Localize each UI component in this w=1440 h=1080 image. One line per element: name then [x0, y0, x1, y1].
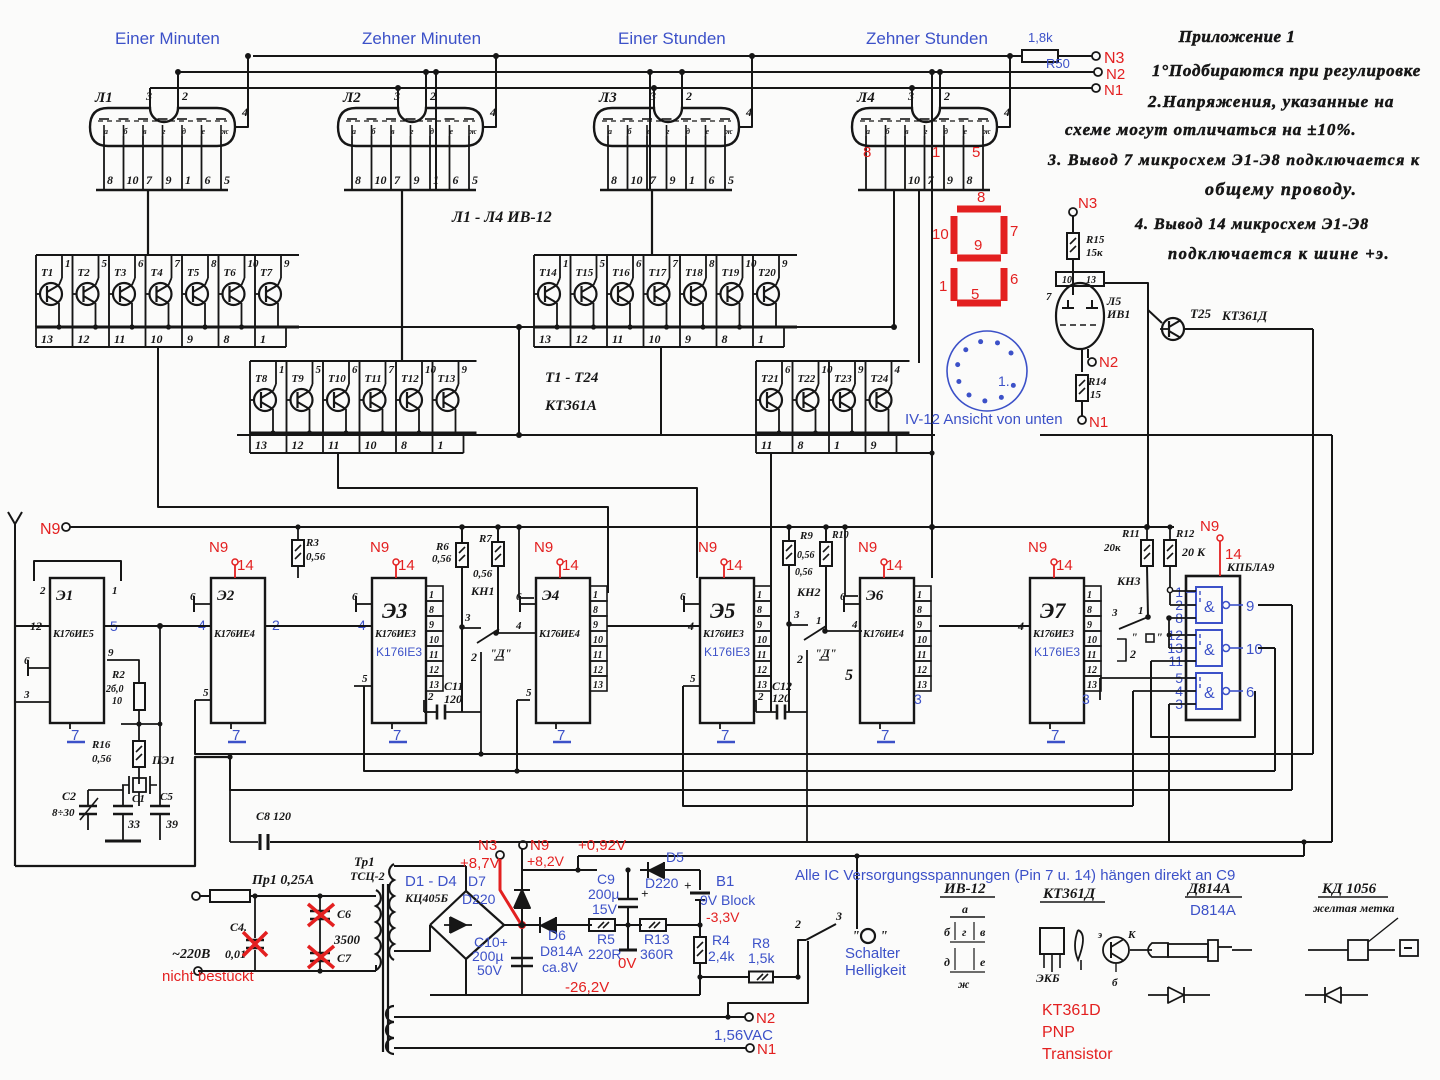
svg-text:R6: R6 — [435, 541, 449, 553]
terminal N2 top — [1094, 68, 1102, 76]
diode D5 D220 — [640, 869, 700, 871]
transistor Т10 — [327, 389, 349, 411]
svg-text:13: 13 — [255, 438, 267, 452]
svg-text:13: 13 — [1087, 680, 1097, 691]
svg-text:14: 14 — [398, 557, 415, 574]
wire rail E4pin5 down — [517, 699, 530, 701]
transistor group frame — [534, 254, 797, 256]
wire E4 ladder out to E5 pin4 — [607, 625, 700, 627]
red cross C6 — [308, 904, 334, 926]
IC Э6 К176ИЕ4 — [860, 578, 914, 723]
IC Э7 right pin ladder — [1084, 586, 1101, 601]
svg-text:Т25: Т25 — [1190, 306, 1211, 321]
svg-text:10: 10 — [932, 226, 949, 243]
svg-text:N9: N9 — [534, 539, 553, 556]
svg-text:1: 1 — [834, 438, 840, 452]
IC Э4 right pin ladder — [590, 586, 607, 601]
resistor R4 2,4k — [699, 925, 701, 938]
svg-text:а: а — [352, 127, 356, 136]
svg-text:3: 3 — [914, 691, 922, 707]
tube IV1 small — [1056, 272, 1104, 286]
svg-text:4: 4 — [489, 105, 496, 119]
svg-text:Т22: Т22 — [798, 373, 816, 385]
wire E2 pin2 to E3 — [265, 625, 372, 627]
svg-text:КН2: КН2 — [796, 585, 820, 599]
svg-text:3: 3 — [1111, 607, 1118, 619]
wire L4 feed down — [893, 190, 895, 327]
svg-text:С11: С11 — [444, 679, 463, 693]
svg-text:14: 14 — [237, 557, 254, 574]
svg-text:Пр1 0,25А: Пр1 0,25А — [251, 873, 314, 888]
wire C8 junction — [227, 754, 232, 759]
svg-text:10: 10 — [248, 258, 260, 270]
svg-text:Т21: Т21 — [761, 373, 779, 385]
resistor R12 20 K — [1169, 527, 1171, 540]
svg-text:11: 11 — [593, 650, 602, 661]
svg-text:Т16: Т16 — [612, 267, 630, 279]
tube Л3 pin 4 wire — [739, 126, 749, 128]
wire N2 to switch — [728, 941, 808, 1017]
svg-text:1: 1 — [1138, 605, 1144, 617]
svg-text:N9: N9 — [530, 837, 549, 854]
wire R7 down to KN1 contact — [497, 566, 499, 633]
svg-text:К176ИЕ3: К176ИЕ3 — [374, 629, 416, 640]
svg-text:8: 8 — [211, 258, 217, 270]
svg-text:7: 7 — [146, 173, 153, 187]
svg-text:4: 4 — [687, 619, 694, 633]
svg-text:10: 10 — [917, 635, 927, 646]
svg-text:1,8k: 1,8k — [1028, 30, 1053, 45]
svg-text:г: г — [163, 127, 166, 136]
terminal 220V bottom — [194, 967, 202, 975]
svg-text:8: 8 — [977, 189, 985, 206]
svg-text:Л2: Л2 — [342, 90, 361, 106]
svg-text:R10: R10 — [831, 530, 849, 541]
wire tube box to T25 — [1104, 283, 1148, 310]
svg-text:Schalter: Schalter — [845, 945, 900, 962]
svg-text:подключается к шине +э.: подключается к шине +э. — [1168, 244, 1390, 263]
svg-text:15V: 15V — [592, 901, 618, 917]
svg-text:1: 1 — [260, 332, 266, 346]
wire -26,2V rail — [430, 994, 700, 996]
svg-text:Т6: Т6 — [224, 267, 237, 279]
svg-text:1: 1 — [65, 258, 71, 270]
svg-text:14: 14 — [886, 557, 903, 574]
terminal N3 right — [1069, 208, 1077, 216]
svg-text:8: 8 — [107, 173, 113, 187]
IC Э1 К176ИЕ5 — [50, 578, 104, 723]
svg-text:КД 1056: КД 1056 — [1321, 881, 1377, 897]
svg-text:+8,2V: +8,2V — [527, 853, 565, 869]
svg-text:Т19: Т19 — [722, 267, 740, 279]
transistor group frame — [36, 254, 299, 256]
svg-text:7: 7 — [389, 364, 395, 376]
svg-text:5: 5 — [203, 687, 209, 699]
svg-text:а: а — [962, 902, 968, 916]
svg-text:5: 5 — [102, 258, 108, 270]
svg-text:8: 8 — [722, 332, 728, 346]
svg-text:8: 8 — [709, 258, 715, 270]
ground 0V — [627, 942, 629, 950]
svg-text:33: 33 — [127, 817, 140, 831]
resistor R3 0,56 — [297, 527, 299, 540]
svg-text:1: 1 — [758, 332, 764, 346]
svg-text:15: 15 — [1090, 389, 1102, 401]
svg-text:6: 6 — [636, 258, 642, 270]
svg-text:1: 1 — [112, 585, 118, 597]
svg-text:0,56: 0,56 — [473, 568, 493, 580]
wire bus crossing L4 — [931, 72, 933, 578]
svg-text:N9: N9 — [858, 539, 877, 556]
svg-text:R4: R4 — [712, 932, 730, 948]
svg-text:9: 9 — [947, 173, 953, 187]
transistor Т18 — [684, 283, 706, 305]
svg-text:4. Вывод 14 микросхем Э1-Э8: 4. Вывод 14 микросхем Э1-Э8 — [1134, 216, 1369, 233]
resistor R14 15 — [1081, 349, 1083, 372]
transistor Т1 — [40, 283, 62, 305]
svg-text:R11: R11 — [1121, 528, 1140, 540]
svg-text:Т23: Т23 — [834, 373, 852, 385]
wire Л2 notch pins to bus — [397, 88, 399, 108]
svg-text:D7: D7 — [468, 873, 486, 889]
svg-text:0,56: 0,56 — [795, 567, 813, 578]
svg-text:N3: N3 — [1078, 195, 1097, 212]
IC Э5 right pin ladder — [754, 586, 771, 601]
svg-text:3: 3 — [23, 689, 30, 701]
wire gate out9 link — [1258, 604, 1292, 606]
wire L4 pin to group D — [918, 190, 920, 363]
svg-text:желтая метка: желтая метка — [1313, 901, 1394, 915]
svg-text:д: д — [182, 127, 186, 136]
svg-text:": " — [1131, 630, 1138, 644]
red wire N3 feed — [496, 851, 504, 859]
svg-text:г: г — [411, 127, 414, 136]
svg-text:5: 5 — [472, 173, 478, 187]
svg-text:Einer Minuten: Einer Minuten — [115, 29, 220, 48]
svg-text:R12: R12 — [1175, 528, 1195, 540]
svg-text:6: 6 — [352, 364, 358, 376]
VFD tube Л4 — [852, 108, 997, 146]
svg-text:е: е — [450, 127, 454, 136]
svg-text:3. Вывод 7 микросхем Э1-Э8 под: 3. Вывод 7 микросхем Э1-Э8 подключается … — [1047, 152, 1420, 169]
svg-text:Zehner Minuten: Zehner Minuten — [362, 29, 481, 48]
IC KPBLA9 block — [1186, 576, 1240, 720]
diode D7 D220 — [521, 908, 523, 925]
svg-text:12: 12 — [292, 438, 304, 452]
svg-text:11: 11 — [917, 650, 926, 661]
tube Л1 pin box row — [96, 189, 228, 192]
wire vertical 1313 from T25 — [1312, 329, 1314, 754]
svg-text:Т15: Т15 — [576, 267, 594, 279]
logic gate & out 10 — [1196, 630, 1222, 666]
svg-text:9: 9 — [871, 438, 877, 452]
transistor group frame — [250, 360, 477, 362]
IC Э3 right pin ladder — [426, 586, 443, 601]
IC Э7 К176ИЕ3 — [1030, 578, 1084, 723]
svg-text:1: 1 — [429, 590, 434, 601]
svg-text:8: 8 — [757, 605, 762, 616]
svg-text:3: 3 — [464, 612, 471, 624]
svg-text:120: 120 — [444, 692, 462, 706]
svg-text:Т1: Т1 — [41, 267, 53, 279]
svg-text:1: 1 — [757, 590, 762, 601]
wire R10 down to KN2 contact — [825, 565, 827, 631]
svg-text:PNP: PNP — [1042, 1024, 1075, 1041]
wire R2 parallel — [159, 626, 161, 724]
svg-text:КН3: КН3 — [1116, 574, 1140, 588]
svg-text:D220: D220 — [462, 891, 496, 907]
svg-text:4: 4 — [515, 620, 522, 632]
svg-text:в: в — [905, 127, 909, 136]
svg-text:ИВ-12: ИВ-12 — [943, 881, 986, 897]
svg-text:R5: R5 — [597, 931, 615, 947]
wire 0,92V to right — [578, 855, 1304, 857]
svg-text:9: 9 — [108, 647, 114, 659]
svg-text:3: 3 — [835, 909, 842, 923]
svg-text:д: д — [944, 127, 948, 136]
svg-text:0,56: 0,56 — [92, 753, 112, 765]
svg-text:13: 13 — [757, 680, 767, 691]
svg-text:R15: R15 — [1085, 234, 1105, 246]
resistor R10 0,56 — [825, 527, 827, 543]
svg-text:ж: ж — [221, 127, 229, 136]
svg-text:ж: ж — [958, 977, 970, 991]
svg-text:Т13: Т13 — [438, 373, 456, 385]
logic gate & out 9 — [1196, 587, 1222, 623]
svg-text:10: 10 — [112, 696, 122, 707]
svg-text:ca.8V: ca.8V — [542, 959, 578, 975]
svg-text:Zehner Stunden: Zehner Stunden — [866, 29, 988, 48]
svg-text:2: 2 — [181, 89, 188, 103]
IC Э2 К176ИЕ4 — [211, 578, 265, 723]
svg-text:С6: С6 — [337, 907, 351, 921]
svg-text:0,56: 0,56 — [797, 550, 815, 561]
svg-text:9: 9 — [974, 237, 982, 254]
wire top bus 2 — [178, 71, 1094, 73]
svg-text:1: 1 — [185, 173, 191, 187]
svg-text:R2: R2 — [111, 669, 125, 681]
svg-text:10: 10 — [151, 332, 163, 346]
transistor Т24 — [870, 389, 892, 411]
tube Л3 pin box row — [600, 189, 732, 192]
svg-text:&: & — [1204, 685, 1215, 702]
svg-text:13: 13 — [593, 680, 603, 691]
svg-text:4: 4 — [851, 619, 858, 631]
svg-text:Т20: Т20 — [758, 267, 776, 279]
svg-text:": " — [852, 929, 860, 944]
svg-text:N1: N1 — [757, 1041, 776, 1058]
svg-text:К176ИЕ3: К176ИЕ3 — [702, 629, 744, 640]
svg-text:11: 11 — [612, 332, 623, 346]
svg-text:КЦ405Б: КЦ405Б — [404, 891, 448, 905]
svg-text:1: 1 — [917, 590, 922, 601]
svg-text:20к: 20к — [1103, 542, 1121, 554]
wire horizontal 435 — [1040, 434, 1332, 436]
svg-text:5: 5 — [845, 667, 853, 684]
logic gate & out 6 — [1196, 673, 1222, 709]
svg-text:8: 8 — [863, 144, 871, 161]
svg-text:С5: С5 — [160, 791, 173, 803]
transistor Т21 — [760, 389, 782, 411]
capacitor C1 33 — [138, 792, 140, 806]
svg-text:в: в — [143, 127, 147, 136]
transistor group emitter rail — [756, 432, 910, 435]
svg-text:13: 13 — [41, 332, 53, 346]
svg-text:7: 7 — [1046, 291, 1052, 303]
svg-text:1: 1 — [279, 364, 285, 376]
svg-text:Т11: Т11 — [365, 373, 382, 385]
diode D6 D814A — [519, 922, 525, 928]
red cross C4 — [243, 932, 267, 956]
svg-text:1: 1 — [939, 278, 947, 295]
svg-text:9: 9 — [284, 258, 290, 270]
svg-text:Т5: Т5 — [187, 267, 200, 279]
svg-text:а: а — [104, 127, 108, 136]
svg-text:9: 9 — [462, 364, 468, 376]
svg-text:9: 9 — [757, 620, 762, 631]
svg-text:8: 8 — [355, 173, 361, 187]
red cross C7 — [308, 946, 334, 968]
svg-text:ж: ж — [725, 127, 733, 136]
transistor Т20 — [757, 283, 779, 305]
svg-text:11: 11 — [1087, 650, 1096, 661]
svg-text:Э4: Э4 — [542, 588, 560, 604]
wire gate pin 4 to rail — [1133, 690, 1196, 692]
svg-text:N9: N9 — [698, 539, 717, 556]
wire rail T1-T7 to x894 — [295, 326, 894, 328]
svg-text:КПБЛА9: КПБЛА9 — [1226, 560, 1274, 574]
svg-text:10: 10 — [746, 258, 758, 270]
wire bus crossing L3 — [649, 72, 651, 190]
terminal N3 top — [1092, 52, 1100, 60]
wire gate out10 link — [1258, 647, 1275, 649]
svg-text:Alle IC Versorgungsspannungen: Alle IC Versorgungsspannungen (Pin 7 u. … — [795, 867, 1235, 884]
svg-text:8÷30: 8÷30 — [52, 807, 75, 819]
tube Л2 pin 4 wire — [483, 126, 493, 128]
legend D814A symbol — [1148, 994, 1168, 996]
svg-text:2: 2 — [757, 691, 764, 703]
svg-text:5: 5 — [690, 673, 696, 685]
transistor Т16 — [611, 283, 633, 305]
IC E1 top bracket — [34, 561, 121, 581]
wire rail C8 long — [270, 841, 1332, 843]
svg-text:К176ИЕ3: К176ИЕ3 — [1032, 629, 1074, 640]
svg-text:R8: R8 — [752, 935, 770, 951]
svg-text:К176ИЕ5: К176ИЕ5 — [52, 629, 94, 640]
svg-text:D814A: D814A — [540, 943, 583, 959]
wire transformer to bridge — [394, 865, 466, 867]
svg-text:"Д": "Д" — [490, 646, 512, 660]
svg-text:Л1: Л1 — [94, 90, 113, 106]
svg-text:200µ: 200µ — [588, 886, 619, 902]
svg-text:2,4k: 2,4k — [708, 948, 735, 964]
svg-text:R50: R50 — [1046, 56, 1070, 71]
wire R2 bottom — [138, 710, 140, 724]
svg-text:3500: 3500 — [333, 932, 361, 947]
wire E1 pin5 to E2 pin4 — [104, 625, 211, 627]
switch Helligkeit — [798, 940, 806, 977]
VFD tube Л1 — [90, 108, 235, 146]
svg-text:-3,3V: -3,3V — [706, 909, 740, 925]
svg-text:12: 12 — [429, 665, 439, 676]
resistor R7 0,56 — [497, 527, 499, 543]
svg-text:9: 9 — [782, 258, 788, 270]
wire switch to 0,92V — [856, 856, 858, 929]
svg-text:&: & — [1204, 642, 1215, 659]
transistor group emitter rail — [534, 326, 797, 329]
svg-text:Т7: Т7 — [260, 267, 273, 279]
transistor Т15 — [575, 283, 597, 305]
transistor group bottom pin boxes — [756, 452, 897, 454]
socket view circle blue — [947, 331, 1027, 411]
svg-text:1: 1 — [932, 144, 940, 161]
svg-text:1: 1 — [593, 590, 598, 601]
svg-text:К: К — [1127, 929, 1136, 941]
svg-text:&: & — [1204, 599, 1215, 616]
svg-text:9: 9 — [1246, 598, 1254, 615]
tube Л2 pin box row — [344, 189, 476, 192]
resistor R6 0,56 — [461, 527, 463, 544]
wire Л3 pin4 to bus — [744, 56, 752, 127]
svg-text:20 К: 20 К — [1181, 545, 1206, 559]
svg-text:4: 4 — [241, 105, 248, 119]
svg-text:К176ИЕ4: К176ИЕ4 — [213, 629, 255, 640]
svg-text:д: д — [430, 127, 434, 136]
terminal N9 +8,2V — [519, 841, 527, 849]
svg-text:D1 - D4: D1 - D4 — [405, 873, 457, 890]
svg-text:2б,0: 2б,0 — [105, 684, 124, 695]
IC Э5 К176ИЕ3 — [700, 578, 754, 723]
terminal N1 top — [1092, 84, 1100, 92]
svg-text:1: 1 — [438, 438, 444, 452]
svg-text:2: 2 — [794, 917, 801, 931]
tube Л4 pin 4 wire — [997, 126, 1007, 128]
svg-text:10: 10 — [375, 173, 387, 187]
svg-text:KT361D: KT361D — [1042, 1002, 1101, 1019]
wire top bus 3 — [150, 87, 1092, 89]
wire T21-24 bottom right — [874, 452, 932, 454]
svg-text:9: 9 — [166, 173, 172, 187]
wire bridge to C10 — [465, 959, 467, 995]
svg-text:Э5: Э5 — [710, 598, 735, 623]
VFD tube Л2 — [338, 108, 483, 146]
svg-text:Э1: Э1 — [56, 588, 73, 604]
svg-text:Т17: Т17 — [649, 267, 667, 279]
svg-text:+: + — [684, 878, 691, 893]
svg-text:ИВ1: ИВ1 — [1106, 307, 1130, 321]
svg-text:0,56: 0,56 — [306, 551, 326, 563]
svg-text:8: 8 — [401, 438, 407, 452]
transistor Т4 — [150, 283, 172, 305]
svg-text:15к: 15к — [1086, 247, 1103, 259]
resistor R5 220R — [589, 919, 615, 931]
wire R12 to gate pins 1,2 — [1169, 566, 1171, 587]
svg-text:14: 14 — [726, 557, 743, 574]
wire Л4 notch pins to bus — [911, 88, 913, 108]
svg-text:10: 10 — [822, 364, 834, 376]
svg-text:": " — [1156, 630, 1163, 644]
svg-text:14: 14 — [562, 557, 579, 574]
svg-text:Э2: Э2 — [217, 588, 235, 604]
wire Л4 pin4 to bus — [1002, 56, 1010, 127]
svg-text:-26,2V: -26,2V — [565, 979, 609, 996]
svg-text:Т18: Т18 — [685, 267, 703, 279]
transistor Т19 — [721, 283, 743, 305]
svg-text:IV-12 Ansicht von unten: IV-12 Ansicht von unten — [905, 411, 1063, 428]
svg-text:в: в — [391, 127, 395, 136]
svg-text:С7: С7 — [337, 951, 352, 965]
svg-text:Т9: Т9 — [292, 373, 305, 385]
